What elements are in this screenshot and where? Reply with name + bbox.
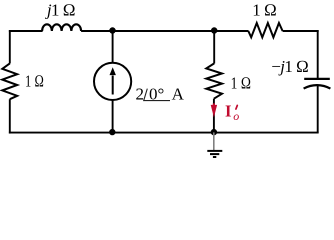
current source arrow xyxy=(112,76,114,95)
svg-text:I: I xyxy=(225,101,231,120)
svg-text:j1 Ω: j1 Ω xyxy=(45,0,75,19)
angle symbol xyxy=(144,89,170,101)
wire source branch upper xyxy=(112,31,114,63)
svg-text:−j1 Ω: −j1 Ω xyxy=(271,57,308,76)
ground bar 3 xyxy=(213,156,216,158)
wire top right segment xyxy=(283,30,319,32)
node C (bottom left junction) xyxy=(109,129,115,135)
wire left vertical upper xyxy=(9,30,11,63)
wire source branch lower xyxy=(112,100,114,133)
resistor R3 (top right) xyxy=(248,23,282,37)
node B (top right junction) xyxy=(211,27,217,33)
ground bar 1 xyxy=(207,150,222,152)
wire right vertical upper xyxy=(317,30,319,78)
capacitor C1 bottom plate (arc) xyxy=(304,85,331,89)
svg-text:1 Ω: 1 Ω xyxy=(252,1,276,20)
ground bar 2 xyxy=(210,153,219,155)
wire bottom xyxy=(9,132,319,134)
resistor R1 (left) xyxy=(2,63,17,99)
svg-text:A: A xyxy=(172,85,185,104)
svg-text:o: o xyxy=(233,109,239,123)
wire middle resistor branch upper xyxy=(213,31,215,64)
resistor R2 (middle) xyxy=(206,63,222,98)
node A (top left junction) xyxy=(109,27,115,33)
wire left vertical lower xyxy=(9,99,11,133)
wire right vertical lower xyxy=(317,86,319,133)
svg-text:1 Ω: 1 Ω xyxy=(231,74,252,93)
capacitor C1 top plate xyxy=(304,78,330,80)
svg-text:0°: 0° xyxy=(149,85,164,104)
ground stem xyxy=(213,132,215,150)
wire top-left segment xyxy=(9,30,43,32)
current source IS1 xyxy=(94,63,131,100)
wire middle resistor branch lower xyxy=(213,99,215,133)
inductor L1 xyxy=(42,24,81,31)
wire top middle xyxy=(81,30,248,32)
node D (bottom right junction) xyxy=(211,129,217,135)
current arrow Io (red) xyxy=(213,103,215,106)
svg-text:1 Ω: 1 Ω xyxy=(25,72,44,91)
svg-text:2: 2 xyxy=(136,85,145,104)
